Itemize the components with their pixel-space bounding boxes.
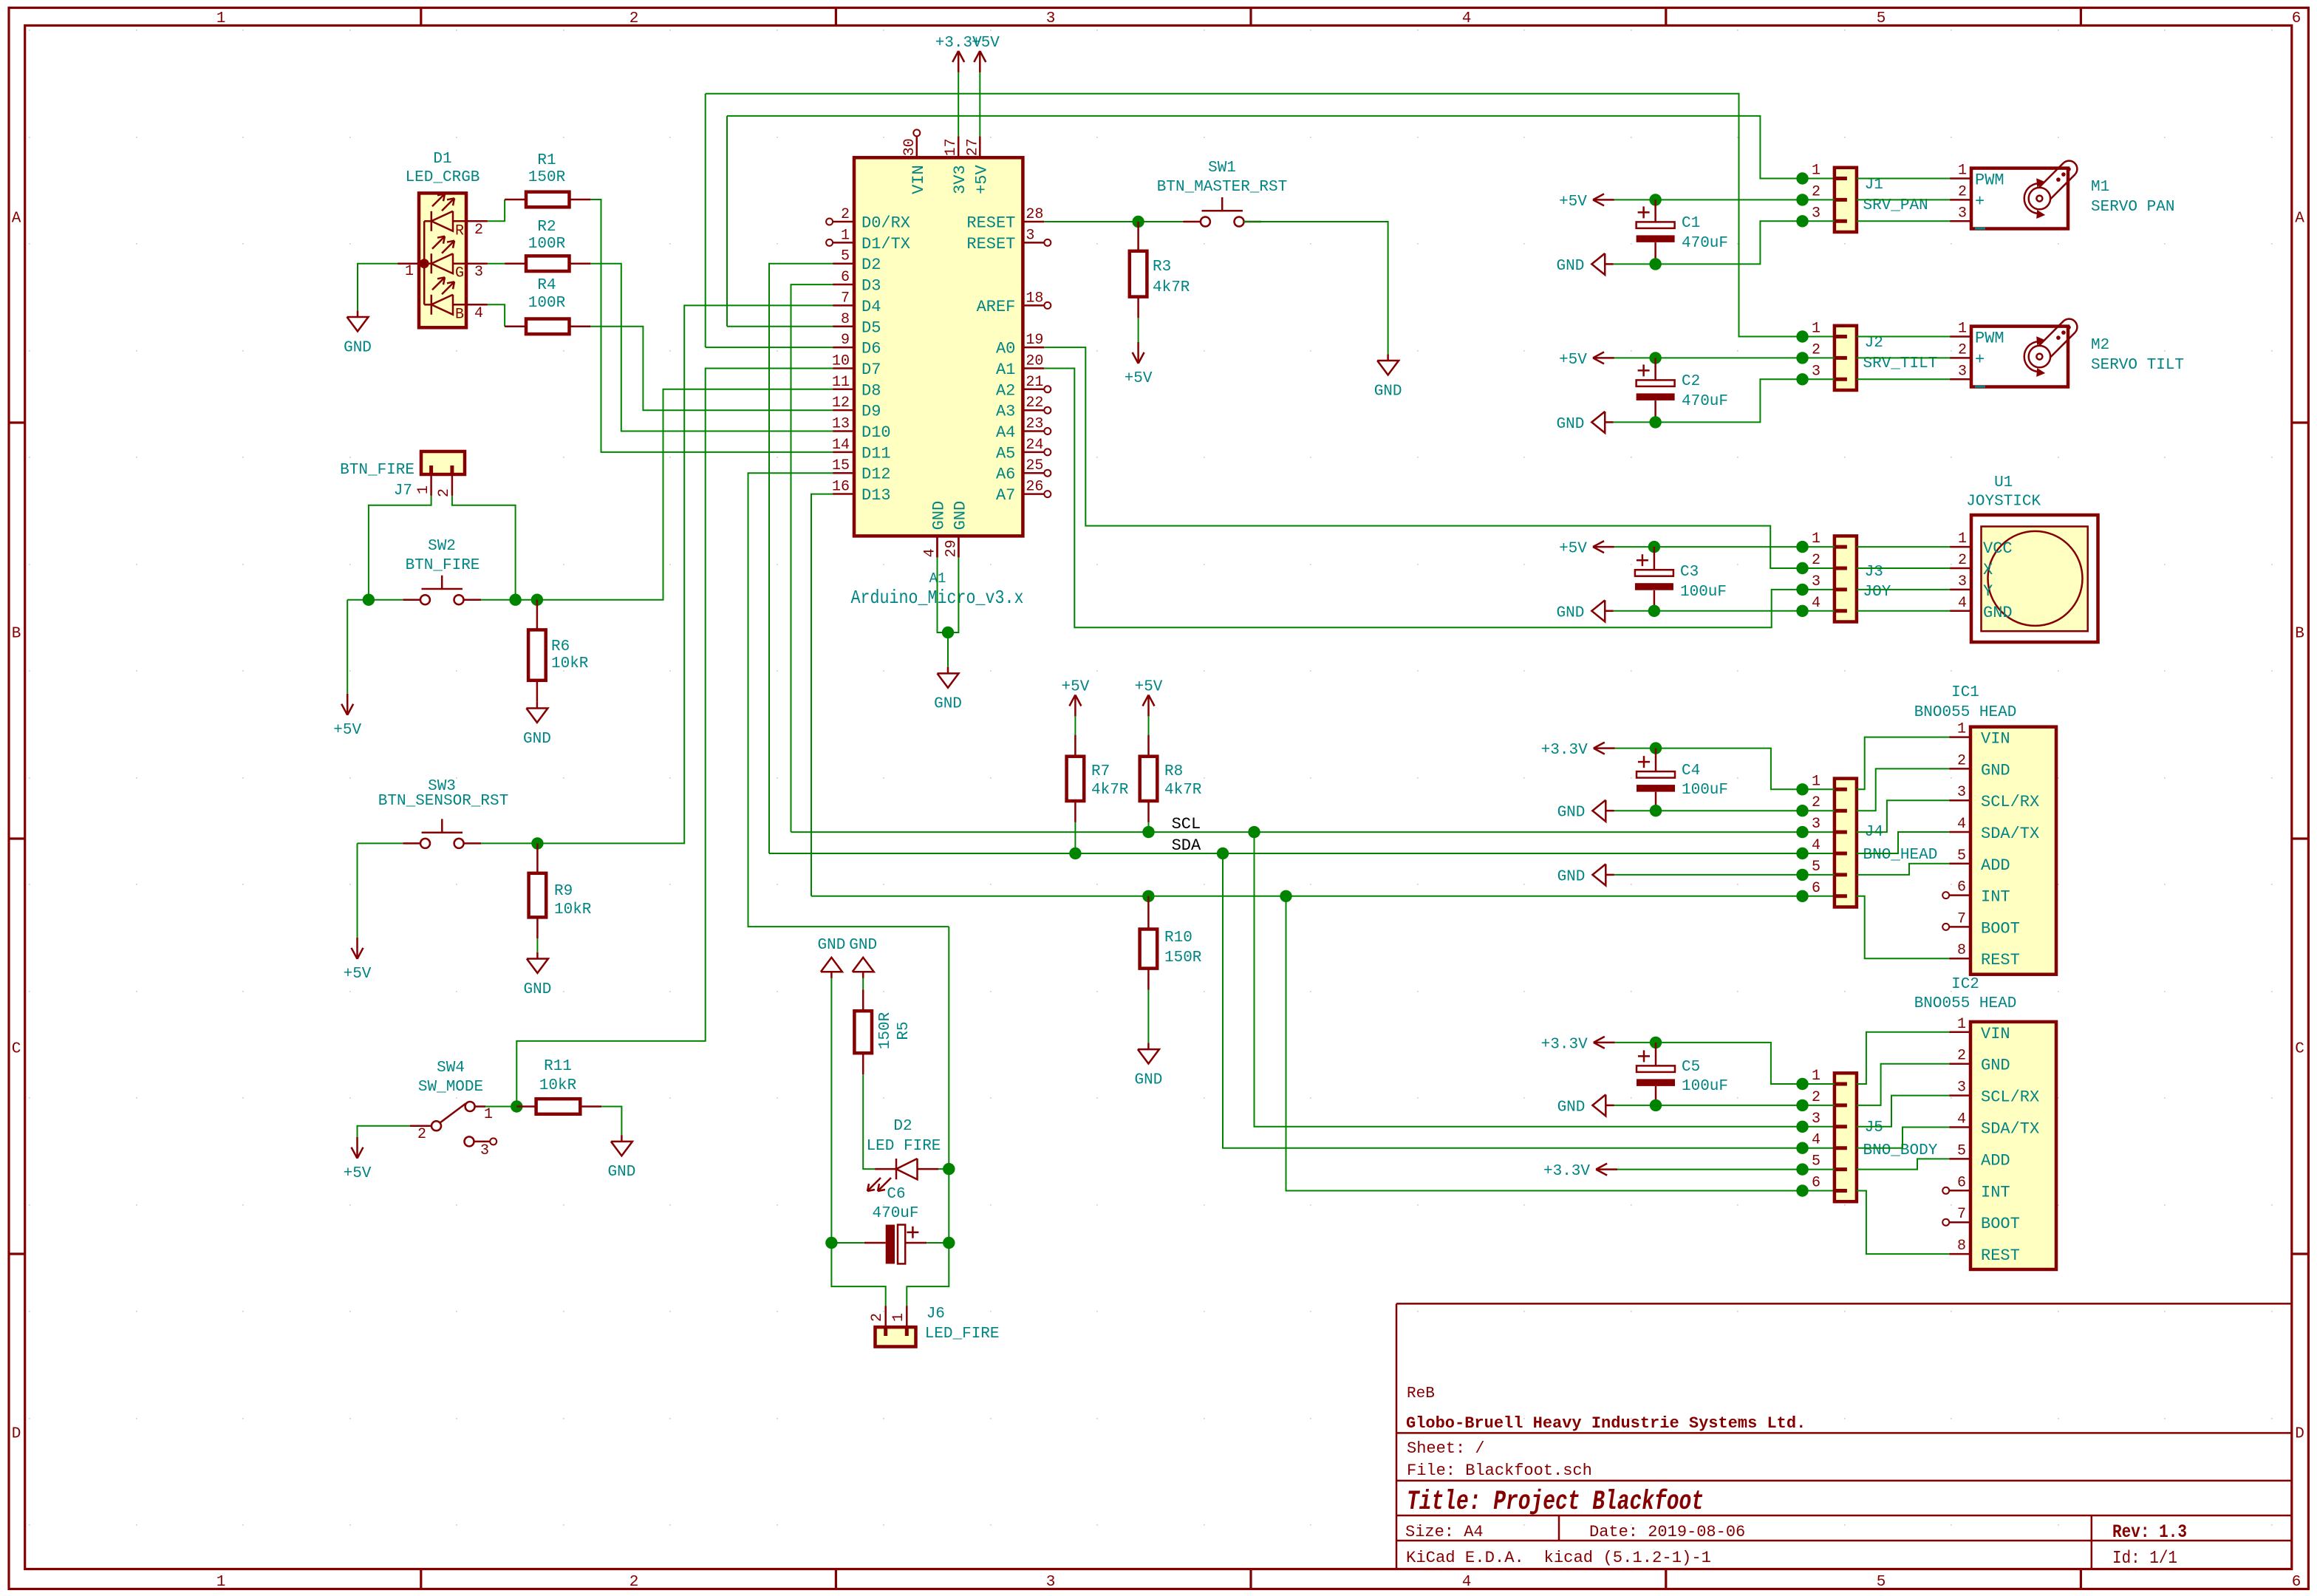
wire +5V to SW2	[347, 599, 403, 601]
junction R9 top	[531, 837, 543, 849]
power +5V at R8	[1147, 695, 1150, 717]
junction C4 top	[1650, 742, 1662, 754]
wire A1 to joystick Y	[1044, 369, 1835, 628]
power +3.3V at C4	[1594, 747, 1615, 749]
wire D3 to SCL	[791, 284, 833, 832]
svg-text:ADD: ADD	[1981, 856, 2010, 875]
svg-text:R: R	[455, 222, 464, 239]
svg-text:J5: J5	[1865, 1119, 1883, 1136]
svg-text:D0/RX: D0/RX	[861, 214, 910, 233]
svg-text:D2: D2	[893, 1118, 912, 1135]
svg-text:4: 4	[1957, 1111, 1966, 1128]
svg-text:4k7R: 4k7R	[1153, 279, 1190, 296]
bno055 IC2 pins	[1949, 1031, 1970, 1034]
svg-text:R9: R9	[554, 883, 573, 900]
junction SCL drop	[1248, 826, 1260, 838]
svg-text:16: 16	[832, 479, 850, 496]
svg-text:C4: C4	[1682, 763, 1700, 780]
wire REST bus	[811, 896, 1835, 897]
svg-text:5: 5	[841, 248, 850, 265]
svg-text:3: 3	[474, 264, 483, 281]
arduino A1 top pins 30 17 27	[916, 136, 918, 157]
svg-text:A6: A6	[996, 465, 1015, 484]
svg-text:D5: D5	[861, 318, 881, 337]
wire R1 to D11	[590, 199, 833, 452]
svg-text:1: 1	[1812, 531, 1820, 548]
svg-text:8: 8	[1957, 942, 1966, 959]
svg-text:21: 21	[1026, 374, 1043, 391]
svg-text:2: 2	[1812, 1089, 1820, 1106]
svg-text:C2: C2	[1682, 373, 1700, 390]
svg-text:IC2: IC2	[1951, 976, 1979, 993]
svg-text:R7: R7	[1091, 763, 1110, 780]
svg-text:LED_FIRE: LED_FIRE	[925, 1326, 1000, 1343]
svg-text:4: 4	[922, 548, 939, 557]
junction C3 top	[1648, 541, 1660, 553]
junction J2 pin2	[1796, 352, 1808, 364]
arduino A1 right pins	[1023, 221, 1044, 223]
wire +5V to J1 pin2	[1614, 199, 1835, 200]
svg-text:4: 4	[1462, 1574, 1472, 1591]
svg-text:A2: A2	[996, 381, 1015, 400]
svg-text:C5: C5	[1682, 1059, 1700, 1076]
junction arduino GND	[942, 627, 954, 638]
svg-text:D3: D3	[861, 277, 881, 296]
svg-text:28: 28	[1026, 206, 1043, 223]
ground symbol at D1 pin1	[358, 264, 397, 311]
svg-text:GND: GND	[607, 1164, 635, 1181]
motor M1 servo glyph	[2050, 174, 2075, 199]
svg-text:SW2: SW2	[428, 538, 456, 555]
power +5V at R7	[1074, 695, 1076, 717]
svg-text:A7: A7	[996, 486, 1015, 505]
svg-text:3: 3	[1046, 1574, 1056, 1591]
svg-text:4: 4	[474, 305, 483, 322]
svg-text:3: 3	[1812, 1111, 1820, 1128]
svg-text:5: 5	[1877, 1574, 1886, 1591]
svg-text:GND: GND	[1556, 604, 1584, 621]
wire R10 to GND	[1147, 990, 1149, 1043]
svg-text:30: 30	[901, 138, 918, 156]
svg-text:C1: C1	[1682, 215, 1700, 232]
svg-text:BTN_MASTER_RST: BTN_MASTER_RST	[1157, 179, 1287, 196]
ground symbol at arduino	[947, 667, 949, 674]
svg-text:J7: J7	[394, 482, 412, 499]
resistor R5	[862, 978, 864, 989]
svg-text:+5V: +5V	[333, 722, 361, 739]
connector J6 body	[876, 1327, 916, 1346]
wire J4 pin4 to IC1 SDA/TX	[1857, 832, 1949, 853]
connector J6 contact bars	[884, 1327, 887, 1336]
svg-text:4: 4	[1462, 10, 1472, 27]
svg-text:100uF: 100uF	[1682, 782, 1728, 799]
power +5V at SW4	[356, 1137, 358, 1159]
motor M1 body	[1971, 168, 2068, 229]
led D1 internal common rail	[423, 221, 426, 304]
svg-text:12: 12	[832, 395, 850, 412]
wire J5 pin1 to IC2 VIN	[1857, 1032, 1949, 1084]
svg-text:4: 4	[1957, 816, 1966, 833]
svg-text:B: B	[12, 626, 21, 643]
switch SW4 SW_MODE	[465, 1102, 475, 1111]
svg-text:1: 1	[890, 1313, 907, 1322]
svg-text:R1: R1	[537, 152, 556, 169]
svg-text:A0: A0	[996, 340, 1015, 358]
wire R7 to SDA	[1074, 822, 1076, 853]
svg-text:1: 1	[1812, 163, 1820, 180]
svg-text:27: 27	[964, 138, 981, 156]
svg-text:M1: M1	[2091, 179, 2109, 196]
junction C2 bottom	[1649, 416, 1661, 428]
svg-text:Date: 2019-08-06: Date: 2019-08-06	[1589, 1523, 1745, 1541]
ground symbol at R11	[621, 1135, 623, 1142]
svg-text:6: 6	[1812, 880, 1820, 897]
svg-text:R5: R5	[895, 1021, 912, 1040]
svg-text:VIN: VIN	[1981, 1025, 2010, 1043]
capacitor C5	[1655, 1043, 1657, 1066]
led D1 element G	[424, 262, 431, 265]
svg-text:9: 9	[841, 332, 850, 349]
junction SDA drop	[1217, 848, 1229, 859]
svg-text:BNO_HEAD: BNO_HEAD	[1863, 847, 1938, 864]
junction R8 SCL	[1142, 826, 1154, 838]
ground symbol at R10	[1147, 1043, 1150, 1049]
svg-text:150R: 150R	[877, 1012, 894, 1049]
svg-text:D: D	[2295, 1426, 2304, 1443]
joystick U1 inner pad	[1982, 527, 2088, 632]
svg-text:JOYSTICK: JOYSTICK	[1966, 494, 2041, 511]
wire SW1 to GND	[1243, 222, 1388, 354]
svg-text:3: 3	[1812, 816, 1820, 833]
svg-text:150R: 150R	[1164, 949, 1202, 966]
wire D6 to J2 PWM	[706, 347, 833, 348]
svg-text:PWM: PWM	[1975, 171, 2004, 190]
svg-text:10kR: 10kR	[539, 1077, 577, 1094]
power +3.3V at J5 pin5	[1596, 1168, 1617, 1170]
svg-text:+: +	[1975, 350, 1985, 369]
svg-text:+5V: +5V	[1559, 541, 1587, 558]
svg-text:1: 1	[484, 1106, 493, 1123]
wire GND to J4 pin5	[1614, 874, 1835, 876]
capacitor C3	[1654, 547, 1656, 570]
joystick U1 outer body	[1971, 515, 2098, 642]
bno055 IC1 body	[1970, 727, 2056, 975]
svg-text:IC1: IC1	[1951, 684, 1979, 701]
svg-text:SERVO TILT: SERVO TILT	[2091, 357, 2184, 374]
svg-text:GND: GND	[1374, 383, 1402, 400]
svg-text:+5V: +5V	[344, 1165, 372, 1182]
svg-text:X: X	[1983, 561, 1993, 579]
wire GND to J1 pin3	[1614, 221, 1835, 264]
wire +5V to J3 pin1	[1614, 546, 1835, 548]
ground symbol at R5	[862, 972, 864, 978]
svg-text:R8: R8	[1164, 763, 1183, 780]
svg-text:BOOT: BOOT	[1981, 919, 2020, 938]
svg-text:SW4: SW4	[437, 1060, 465, 1077]
junction J3 pin3	[1796, 584, 1808, 596]
wire SCL to J5 pin3	[1255, 832, 1835, 1127]
svg-text:10kR: 10kR	[551, 655, 589, 672]
svg-text:Globo-Bruell Heavy Industrie S: Globo-Bruell Heavy Industrie Systems Ltd…	[1406, 1414, 1806, 1433]
ground symbol at C3	[1605, 610, 1614, 613]
svg-text:18: 18	[1026, 290, 1043, 307]
wire J4 pin5 to IC1 ADD	[1857, 864, 1949, 875]
svg-text:6: 6	[2292, 1574, 2301, 1591]
ground symbol at C5	[1605, 1105, 1614, 1107]
svg-text:+5V: +5V	[972, 35, 1000, 52]
svg-text:C: C	[12, 1041, 21, 1058]
svg-text:SW_MODE: SW_MODE	[418, 1079, 483, 1096]
svg-text:GND: GND	[934, 696, 962, 713]
svg-text:2: 2	[474, 222, 483, 239]
svg-text:SCL: SCL	[1172, 815, 1201, 833]
svg-text:+5V: +5V	[1061, 678, 1089, 695]
svg-text:3: 3	[1812, 573, 1820, 590]
svg-text:6: 6	[1812, 1175, 1820, 1192]
svg-text:GND: GND	[1556, 258, 1584, 275]
svg-text:1: 1	[1812, 1068, 1820, 1085]
junction J2 pin1	[1796, 330, 1808, 342]
svg-text:D7: D7	[861, 361, 881, 379]
ground symbol at J4 pin5	[1605, 874, 1614, 876]
resistor R3	[1137, 222, 1139, 251]
junction C6 right	[943, 1237, 955, 1249]
wire +5V to SW3	[358, 842, 403, 844]
svg-text:3: 3	[1812, 205, 1820, 222]
svg-text:7: 7	[841, 290, 850, 307]
bno055 IC1 unconnected INT BOOT	[1942, 892, 1949, 898]
bno055 IC2 unconnected INT BOOT	[1942, 1187, 1949, 1194]
resistor R7	[1074, 716, 1076, 756]
wire J5 pin2 to IC2 GND	[1857, 1064, 1949, 1105]
junction J5 pin4	[1796, 1142, 1808, 1154]
wire R2 to D10	[590, 264, 833, 432]
title block frame	[1396, 1303, 1398, 1569]
wire REST to J5 pin6	[1286, 896, 1835, 1191]
svg-text:3: 3	[1812, 363, 1820, 380]
svg-text:Title: Project Blackfoot: Title: Project Blackfoot	[1407, 1487, 1704, 1518]
svg-text:24: 24	[1026, 437, 1043, 454]
led D1 element B	[424, 304, 431, 306]
arduino A1 unconnected pin circles D0 D1	[826, 219, 833, 225]
svg-text:4k7R: 4k7R	[1091, 782, 1129, 799]
svg-text:3: 3	[480, 1142, 489, 1159]
wire J4 pin1 to IC1 VIN	[1857, 737, 1949, 790]
wire J7 pin2 to BTN_FIRE net	[452, 496, 516, 600]
svg-text:3V3: 3V3	[951, 165, 969, 194]
connector J1 body	[1835, 168, 1857, 232]
motor M2 pins	[1857, 336, 1950, 338]
wire RESET to SW1	[1044, 221, 1201, 222]
svg-text:4k7R: 4k7R	[1164, 782, 1202, 799]
resistor R4	[505, 326, 526, 328]
junction J5 pin5	[1796, 1163, 1808, 1175]
junction J4 pin6	[1796, 890, 1808, 902]
wire SCL bus	[791, 831, 1835, 833]
junction J4 pin1	[1796, 783, 1808, 795]
junction J1 pin3	[1796, 215, 1808, 227]
ground symbol at R9	[536, 952, 539, 959]
wire +3.3V to J5 pin5	[1617, 1169, 1835, 1170]
connector J6 pin 1	[906, 1306, 908, 1327]
svg-text:1: 1	[1958, 321, 1967, 338]
svg-text:BNO055 HEAD: BNO055 HEAD	[1914, 704, 2017, 721]
wire +5V to J2 pin2	[1614, 357, 1835, 358]
svg-text:A: A	[12, 211, 21, 228]
svg-text:M2: M2	[2091, 337, 2109, 354]
svg-text:C6: C6	[887, 1186, 905, 1203]
wire D1 pin3 to R2	[488, 263, 505, 265]
switch SW2	[420, 595, 430, 604]
diode D2 LED	[875, 1168, 896, 1170]
junction J5 pin1	[1796, 1078, 1808, 1090]
svg-text:JOY: JOY	[1863, 584, 1891, 601]
led D1 pin 3	[466, 262, 488, 265]
bno055 IC2 body	[1970, 1022, 2056, 1269]
svg-text:Size: A4: Size: A4	[1405, 1523, 1484, 1541]
svg-text:25: 25	[1026, 457, 1043, 474]
svg-text:GND: GND	[849, 937, 877, 954]
wire D13 to REST net	[811, 494, 833, 896]
wire D5 to J1 PWM	[727, 326, 833, 327]
wire J5 pin6 to IC2 REST	[1857, 1191, 1949, 1255]
svg-text:22: 22	[1026, 395, 1043, 412]
wire SDA bus	[769, 853, 1835, 854]
wire SDA to J5 pin4	[1223, 853, 1835, 1148]
capacitor C4	[1655, 748, 1657, 772]
junction J1 pin1	[1796, 172, 1808, 184]
junction J4 pin2	[1796, 805, 1808, 816]
svg-text:2: 2	[841, 206, 850, 223]
svg-text:GND: GND	[1134, 1071, 1162, 1088]
svg-text:10: 10	[832, 352, 850, 369]
junction J3 pin2	[1796, 562, 1808, 574]
arduino A1 pin 30 unconnected circle	[913, 129, 920, 136]
svg-text:ReB: ReB	[1407, 1385, 1435, 1402]
ground symbol GND left of R5	[830, 972, 833, 978]
svg-text:GND: GND	[1556, 416, 1584, 433]
svg-text:D13: D13	[861, 486, 891, 505]
wire J7 pin1 to BTN_FIRE net	[369, 496, 431, 600]
junction C5 bottom	[1650, 1099, 1662, 1111]
svg-text:1: 1	[216, 1574, 226, 1591]
svg-text:Y: Y	[1983, 582, 1993, 601]
wire D12 to LED_FIRE	[748, 473, 949, 927]
svg-text:6: 6	[841, 269, 850, 286]
svg-text:3: 3	[1958, 573, 1967, 590]
junction C1 bottom	[1649, 258, 1661, 270]
motor M2 body	[1971, 327, 2068, 387]
svg-text:2: 2	[869, 1313, 886, 1322]
junction R7 SDA	[1069, 848, 1081, 859]
wire SW_MODE to D7	[516, 369, 833, 1107]
svg-text:+3.3V: +3.3V	[1541, 742, 1588, 759]
svg-text:4: 4	[1812, 837, 1820, 854]
resistor R1	[505, 199, 526, 201]
svg-text:2: 2	[1958, 341, 1967, 358]
power +5V at SW2	[347, 600, 348, 694]
svg-text:15: 15	[832, 457, 850, 474]
wire GND to J2 pin3	[1614, 379, 1835, 422]
svg-text:2: 2	[1958, 183, 1967, 200]
wire LED_FIRE vertical	[948, 927, 949, 1243]
svg-text:Sheet: /: Sheet: /	[1407, 1439, 1485, 1458]
connector J2 body	[1835, 326, 1857, 390]
capacitor C6	[831, 1242, 864, 1244]
svg-text:SDA: SDA	[1172, 836, 1201, 855]
switch SW3	[420, 839, 430, 848]
svg-text:1: 1	[216, 10, 226, 27]
led D1 internal junction	[420, 259, 429, 268]
svg-text:1: 1	[405, 263, 414, 280]
svg-text:5: 5	[1957, 848, 1966, 864]
svg-text:1: 1	[1958, 163, 1967, 180]
svg-text:VIN: VIN	[910, 165, 928, 194]
wire C6 to J6 pin1	[907, 1243, 949, 1306]
wire GND down to C6	[830, 978, 832, 1243]
svg-text:R2: R2	[537, 219, 556, 236]
svg-text:19: 19	[1026, 332, 1043, 349]
svg-text:AREF: AREF	[977, 298, 1016, 316]
wire BTN_FIRE to D8	[537, 389, 833, 600]
svg-text:2: 2	[1812, 183, 1820, 200]
ground symbol at C1	[1605, 263, 1614, 265]
svg-text:1: 1	[841, 227, 850, 244]
svg-text:BNO_BODY: BNO_BODY	[1863, 1142, 1938, 1159]
wire GND to J3 pin4	[1614, 610, 1835, 612]
svg-text:2: 2	[629, 10, 639, 27]
svg-text:2: 2	[1957, 1048, 1966, 1065]
svg-text:11: 11	[832, 374, 850, 391]
arduino A1 body	[854, 157, 1023, 536]
svg-text:SERVO PAN: SERVO PAN	[2091, 199, 2174, 216]
svg-text:D1: D1	[433, 151, 451, 168]
svg-text:RESET: RESET	[966, 214, 1015, 233]
svg-text:SW1: SW1	[1208, 160, 1236, 177]
svg-text:LED FIRE: LED FIRE	[867, 1138, 941, 1155]
power +5V at C2	[1593, 357, 1614, 359]
svg-text:100R: 100R	[528, 295, 566, 312]
led D1 element R	[424, 220, 431, 222]
svg-text:5: 5	[1877, 10, 1886, 27]
svg-text:D11: D11	[861, 444, 891, 463]
joystick U1 pins	[1857, 546, 1950, 548]
svg-text:100uF: 100uF	[1680, 584, 1727, 601]
wire BTN_SENSOR_RST to D4	[537, 305, 833, 843]
svg-text:5: 5	[1957, 1142, 1966, 1159]
svg-text:BTN_FIRE: BTN_FIRE	[340, 462, 414, 479]
connector J7 pin 2	[451, 474, 454, 496]
svg-text:+5V: +5V	[1559, 352, 1587, 369]
connector J7 pin 1	[430, 474, 432, 496]
frame row ticks	[9, 421, 25, 423]
led D1 body	[419, 193, 466, 327]
svg-text:File: Blackfoot.sch: File: Blackfoot.sch	[1407, 1462, 1592, 1480]
svg-text:1: 1	[1957, 721, 1966, 738]
resistor R10	[1147, 896, 1150, 930]
svg-text:A5: A5	[996, 444, 1015, 463]
junction J5 pin6	[1796, 1184, 1808, 1196]
svg-text:2: 2	[1957, 752, 1966, 769]
svg-text:SDA/TX: SDA/TX	[1981, 1120, 2039, 1139]
power +5V at R3	[1137, 342, 1139, 364]
connector J3 body	[1835, 536, 1857, 621]
svg-text:A4: A4	[996, 423, 1015, 442]
svg-text:D8: D8	[861, 381, 881, 400]
svg-text:BNO055 HEAD: BNO055 HEAD	[1914, 995, 2017, 1012]
svg-text:+5V: +5V	[1135, 678, 1163, 695]
svg-text:3: 3	[1046, 10, 1056, 27]
